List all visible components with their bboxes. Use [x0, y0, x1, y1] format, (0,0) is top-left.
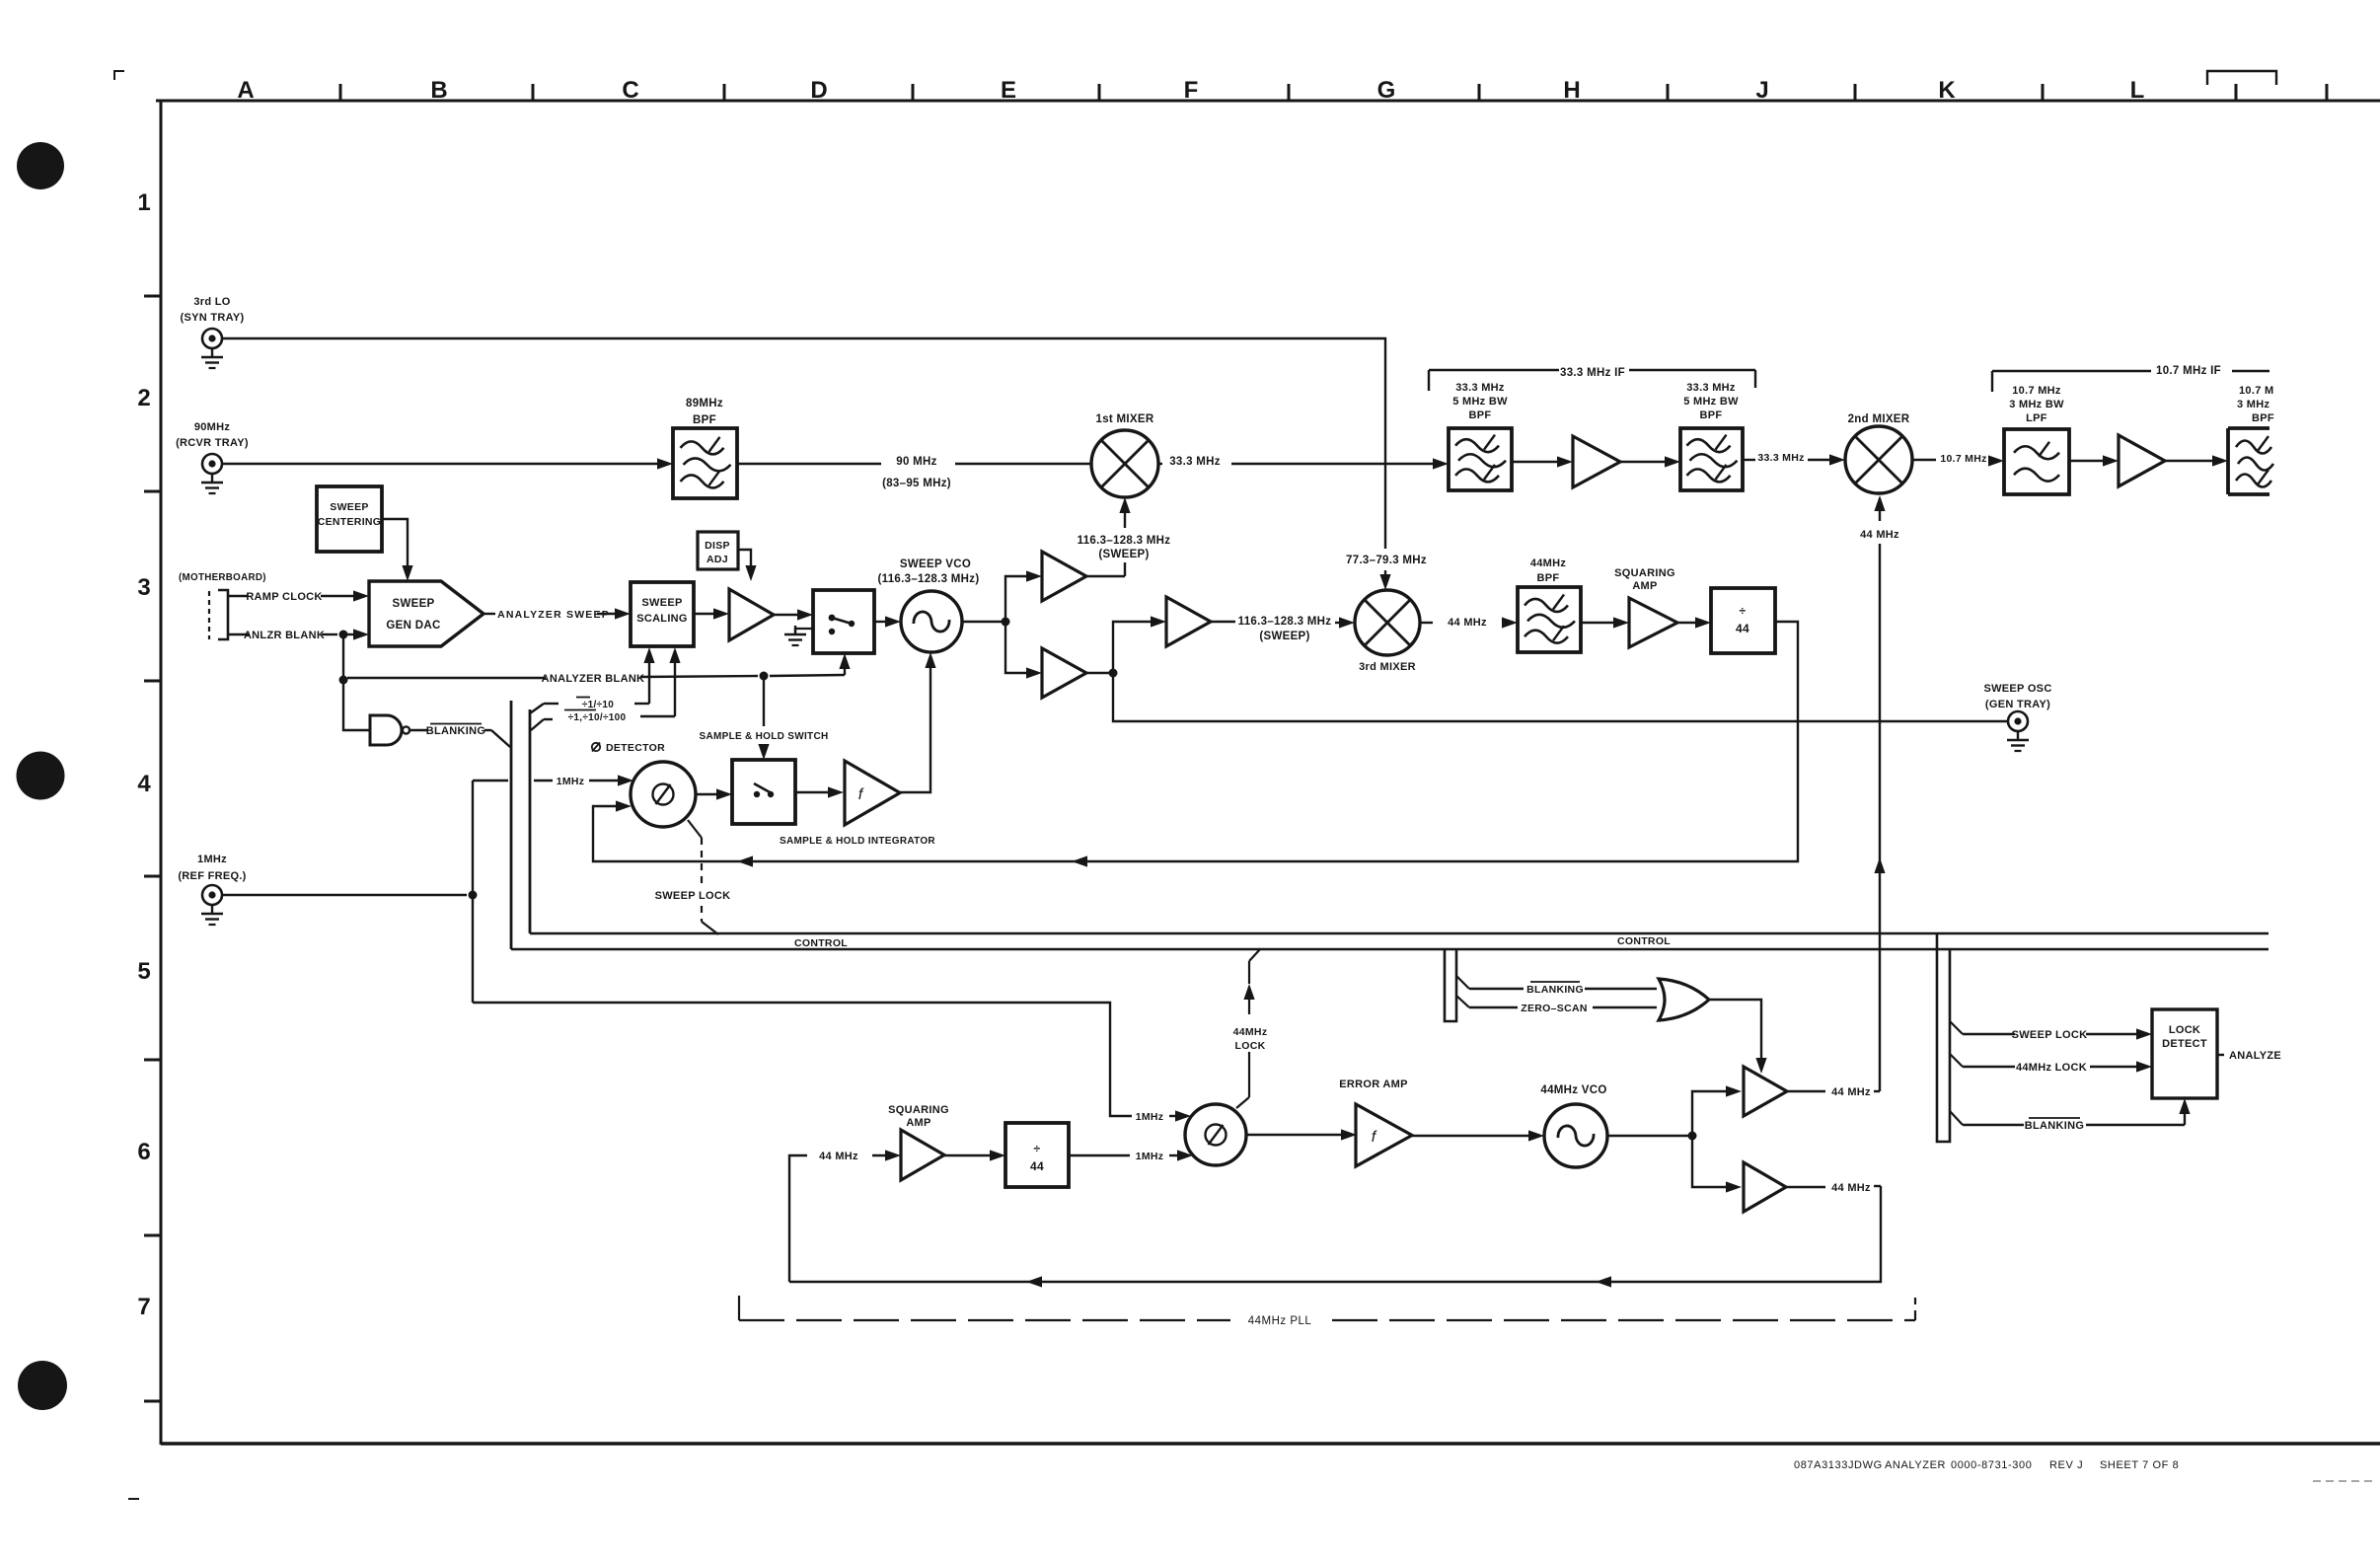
svg-text:CONTROL: CONTROL: [794, 937, 848, 949]
svg-text:SQUARING: SQUARING: [1614, 567, 1675, 579]
filter FL2 33.3 MHz 5 MHz BW BPF: [1449, 382, 1512, 490]
wire ANLZR BLANK: [228, 629, 369, 641]
ground at sweep VCO input switch: [784, 626, 812, 645]
block SWEEP CENTERING: [317, 486, 382, 552]
amplifier A7 SQUARING AMP: [1614, 567, 1677, 647]
svg-text:44: 44: [1736, 622, 1749, 635]
wire 44MHz PLL feedback into squaring amp: [789, 1150, 901, 1282]
svg-text:BPF: BPF: [693, 414, 716, 426]
wire S&H line up into switch S1: [839, 653, 850, 675]
svg-text:DETECT: DETECT: [2162, 1038, 2207, 1050]
svg-text:1: 1: [137, 189, 150, 216]
wire 44 MHz LO vertical into 2nd mixer (from 44MHz VCO buffer): [1860, 495, 1899, 1091]
wire error amp to 44MHz VCO: [1412, 1130, 1544, 1141]
wire sweep LO into 1st mixer, 116.3-128.3 MHz (SWEEP) label: [1078, 497, 1171, 576]
svg-text:1MHz: 1MHz: [1136, 1151, 1164, 1162]
amplifier A6 sweep buffer to 3rd mixer: [1166, 597, 1211, 646]
amplifier A10 ERROR AMP: [1339, 1079, 1412, 1166]
wire 1st mixer out, 33.3 MHz label: [1158, 456, 1449, 470]
wire LPF to 10.7 amp: [2069, 455, 2119, 466]
filter FL1 89MHz BPF: [673, 398, 737, 498]
wire 90MHz input to 89MHz BPF: [222, 458, 673, 469]
filter FL5 10.7 MHz 3 MHz BPF (cut at page edge): [2228, 385, 2274, 494]
wire RAMP CLOCK: [228, 590, 369, 603]
svg-text:E: E: [1001, 77, 1016, 104]
block LOCK DETECT: [2152, 1009, 2217, 1098]
svg-text:10.7 MHz: 10.7 MHz: [2012, 385, 2061, 397]
svg-text:(GEN TRAY): (GEN TRAY): [1985, 699, 2050, 710]
wire DISP ADJ to post amp: [738, 550, 757, 581]
bus channel vertical (control signals): [511, 701, 530, 949]
wire 89MHz BPF to 1st mixer, 90 MHz (83-95 MHz) label: [737, 456, 1091, 489]
wire 1MHz reference into sweep phase detector: [473, 775, 633, 787]
svg-text:SWEEP OSC: SWEEP OSC: [1983, 683, 2051, 695]
amplifier A9 SQUARING AMP (44MHz PLL): [888, 1104, 949, 1180]
svg-text:33.3 MHz: 33.3 MHz: [1455, 382, 1505, 394]
svg-text:10.7 MHz IF: 10.7 MHz IF: [2156, 365, 2221, 377]
oscillator G1 SWEEP VCO: [878, 558, 980, 652]
svg-text:89MHz: 89MHz: [686, 398, 723, 409]
svg-text:5 MHz BW: 5 MHz BW: [1683, 396, 1739, 408]
connector J5 1MHz (REF FREQ.): [178, 854, 246, 925]
svg-text:BLANKING: BLANKING: [2025, 1120, 2084, 1132]
wire integrator output up into sweep VCO: [900, 652, 936, 792]
OR gate U7 blanking/zero-scan: [1659, 979, 1709, 1020]
svg-text:LPF: LPF: [2026, 412, 2047, 424]
svg-text:ANALYZER: ANALYZER: [1885, 1459, 1946, 1471]
wire A11 output 44 MHz to vertical riser: [1787, 1086, 1880, 1098]
wire 44MHz LOCK up to control line: [1233, 949, 1268, 1108]
mixer M3 3rd MIXER: [1355, 590, 1420, 673]
svg-text:BLANKING: BLANKING: [1526, 984, 1584, 996]
amplifier A12 44MHz buffer (PLL feedback): [1744, 1162, 1786, 1212]
svg-text:(116.3–128.3 MHz): (116.3–128.3 MHz): [878, 573, 980, 585]
phase detector U4 (sweep): [592, 742, 696, 827]
wire sweep scaling to post amp: [694, 608, 729, 619]
svg-text:÷1/÷10: ÷1/÷10: [582, 700, 614, 710]
svg-text:44MHz PLL: 44MHz PLL: [1248, 1315, 1312, 1327]
svg-text:AMP: AMP: [1632, 580, 1657, 592]
wire phase detector to error amp: [1246, 1129, 1357, 1140]
svg-text:44 MHz: 44 MHz: [1831, 1086, 1871, 1098]
wire SWEEP LOCK into lock detect: [1963, 1028, 2152, 1041]
wire divide control 1,10/100 to sweep scaling: [531, 647, 681, 730]
svg-text:LOCK: LOCK: [2169, 1024, 2200, 1036]
svg-text:33.3 MHz: 33.3 MHz: [1686, 382, 1736, 394]
svg-text:ADJ: ADJ: [707, 554, 728, 565]
switch S2 SAMPLE & HOLD SWITCH: [732, 760, 795, 824]
wire BLANKING into OR gate: [1469, 982, 1657, 996]
wire A6 to 3rd mixer, 116.3-128.3 MHz (SWEEP) label: [1211, 616, 1355, 642]
bus drop to BLANKING / ZERO-SCAN: [1445, 949, 1469, 1021]
wire 1MHz reference down to 44MHz PLL phase detector: [473, 1003, 1191, 1123]
wire ANALYZE output (cut at page edge): [2217, 1050, 2281, 1062]
svg-text:÷: ÷: [1740, 604, 1747, 618]
svg-text:BPF: BPF: [1537, 572, 1560, 584]
svg-text:116.3–128.3 MHz: 116.3–128.3 MHz: [1078, 535, 1171, 547]
svg-text:5 MHz BW: 5 MHz BW: [1452, 396, 1508, 408]
wire phase det to S&H switch: [696, 788, 732, 799]
svg-text:A: A: [237, 77, 254, 104]
svg-text:(SWEEP): (SWEEP): [1098, 549, 1149, 560]
svg-text:DISP: DISP: [705, 540, 730, 552]
wire 3rd mixer out, 44 MHz label: [1420, 617, 1518, 629]
svg-text:5: 5: [137, 958, 150, 985]
wire divider U2 down to sweep phase detector (feedback): [593, 622, 1798, 867]
svg-text:SWEEP: SWEEP: [330, 501, 368, 513]
svg-text:(RCVR TRAY): (RCVR TRAY): [176, 437, 249, 449]
svg-text:1st MIXER: 1st MIXER: [1096, 413, 1154, 425]
svg-text:087A3133JDWG: 087A3133JDWG: [1794, 1459, 1883, 1471]
wire OR gate output down into buffer amp: [1709, 1000, 1767, 1074]
svg-text:44: 44: [1030, 1159, 1044, 1173]
svg-text:4: 4: [137, 771, 151, 797]
svg-text:SWEEP LOCK: SWEEP LOCK: [655, 890, 731, 902]
svg-text:SWEEP LOCK: SWEEP LOCK: [2012, 1029, 2088, 1041]
svg-text:SWEEP VCO: SWEEP VCO: [900, 558, 971, 570]
connector J3 motherboard: [179, 572, 266, 639]
svg-text:3rd MIXER: 3rd MIXER: [1359, 661, 1416, 673]
svg-text:D: D: [810, 77, 827, 104]
wire NAND input from node: [343, 680, 370, 730]
wire sweep VCO output node: [962, 570, 1042, 678]
svg-text:BPF: BPF: [2252, 412, 2274, 424]
svg-text:10.7 MHz: 10.7 MHz: [1940, 453, 1986, 465]
NAND gate U3 blanking: [370, 715, 409, 745]
svg-text:SWEEP: SWEEP: [641, 597, 682, 609]
wire IF amp to FL3: [1620, 456, 1680, 467]
wire FL3 to 2nd mixer, 33.3 MHz label: [1743, 452, 1845, 466]
svg-text:G: G: [1377, 77, 1396, 104]
svg-text:÷: ÷: [1034, 1142, 1041, 1155]
wire 2nd mixer out, 10.7 MHz label: [1912, 453, 2004, 467]
mixer M1 1st MIXER: [1091, 413, 1158, 497]
amplifier A3 sweep buffer: [729, 589, 774, 640]
svg-text:44MHz: 44MHz: [1233, 1026, 1268, 1038]
svg-text:÷1,÷10/÷100: ÷1,÷10/÷100: [568, 712, 627, 723]
svg-text:GEN DAC: GEN DAC: [386, 620, 440, 632]
svg-text:90MHz: 90MHz: [194, 421, 231, 433]
svg-text:33.3 MHz IF: 33.3 MHz IF: [1560, 367, 1625, 379]
wire FL2 to IF amp: [1512, 456, 1573, 467]
svg-text:F: F: [1184, 77, 1199, 104]
svg-text:CONTROL: CONTROL: [1617, 935, 1671, 947]
wire 1MHz vertical riser to sweep detector: [472, 781, 474, 1003]
wire A3 to S&H switch block, ground tap: [774, 609, 813, 620]
switch S1 sweep hold switch: [813, 590, 874, 653]
wire sweep centering to DAC: [382, 519, 413, 581]
bracket 10.7 MHz IF: [1992, 365, 2269, 392]
svg-text:ANLZR BLANK: ANLZR BLANK: [244, 630, 325, 641]
wire 44MHz LOCK into lock detect: [1963, 1061, 2152, 1074]
wire squaring amp to divider U5: [944, 1150, 1005, 1160]
svg-text:3 MHz BW: 3 MHz BW: [2009, 399, 2064, 410]
svg-text:C: C: [622, 77, 638, 104]
filter FL3 33.3 MHz 5 MHz BW BPF: [1680, 382, 1743, 490]
svg-text:44 MHz: 44 MHz: [819, 1151, 858, 1162]
filter FL6 44MHz BPF: [1518, 558, 1581, 652]
wire FL6 to squaring amp: [1580, 617, 1629, 628]
divider U2 divide-by-44: [1711, 588, 1775, 653]
svg-text:SAMPLE & HOLD INTEGRATOR: SAMPLE & HOLD INTEGRATOR: [780, 836, 935, 847]
svg-text:3rd LO: 3rd LO: [193, 296, 230, 308]
mixer M2 2nd MIXER: [1845, 413, 1912, 493]
wire 3rd LO to 3rd mixer with 77.3-79.3 MHz label: [222, 338, 1427, 590]
wire squaring amp to divider: [1677, 617, 1711, 628]
svg-text:44 MHz: 44 MHz: [1860, 529, 1899, 541]
svg-text:33.3 MHz: 33.3 MHz: [1757, 452, 1804, 464]
svg-text:44 MHz: 44 MHz: [1831, 1182, 1871, 1194]
svg-text:SHEET 7 OF 8: SHEET 7 OF 8: [2100, 1459, 2179, 1471]
svg-text:SWEEP: SWEEP: [392, 598, 434, 610]
block DISP ADJ: [698, 532, 738, 569]
wire BLANKING into control bus: [410, 724, 511, 748]
svg-text:10.7 M: 10.7 M: [2239, 385, 2273, 397]
svg-text:BPF: BPF: [1700, 409, 1723, 421]
svg-text:SQUARING: SQUARING: [888, 1104, 949, 1116]
svg-text:REV J: REV J: [2049, 1459, 2083, 1471]
svg-text:90 MHz: 90 MHz: [896, 456, 936, 468]
svg-text:B: B: [430, 77, 447, 104]
svg-text:1MHz: 1MHz: [1136, 1111, 1164, 1123]
wire SWEEP LOCK dashed from phase detector to control line: [655, 820, 731, 934]
bracket 33.3 MHz IF: [1429, 367, 1755, 391]
svg-text:2: 2: [137, 385, 150, 411]
filter FL4 10.7 MHz 3 MHz BW LPF: [2004, 385, 2069, 494]
amplifier A5 sweep LO buffer (to 3rd mixer path): [1042, 648, 1086, 698]
svg-text:44MHz LOCK: 44MHz LOCK: [2016, 1062, 2087, 1074]
oscillator G2 44MHz VCO: [1540, 1084, 1607, 1167]
svg-text:RAMP CLOCK: RAMP CLOCK: [246, 591, 322, 603]
svg-text:(SWEEP): (SWEEP): [1259, 631, 1309, 642]
svg-text:(REF FREQ.): (REF FREQ.): [178, 870, 246, 882]
svg-text:6: 6: [137, 1139, 150, 1165]
svg-text:DETECTOR: DETECTOR: [606, 742, 665, 754]
svg-text:3 MHz: 3 MHz: [2237, 399, 2269, 410]
amplifier A8 SAMPLE & HOLD INTEGRATOR: [780, 761, 935, 847]
svg-text:LOCK: LOCK: [1235, 1040, 1266, 1052]
svg-text:ANALYZE: ANALYZE: [2229, 1050, 2281, 1062]
svg-text:44MHz: 44MHz: [1530, 558, 1567, 569]
svg-text:K: K: [1938, 77, 1956, 104]
amplifier A1 33.3 MHz IF amp: [1573, 436, 1620, 487]
svg-text:J: J: [1755, 77, 1768, 104]
wire 1MHz ref to node: [222, 891, 478, 900]
svg-text:ANALYZER BLANK: ANALYZER BLANK: [542, 673, 645, 685]
svg-text:33.3 MHz: 33.3 MHz: [1169, 456, 1221, 468]
connector J4 SWEEP OSC (GEN TRAY): [1983, 683, 2051, 751]
svg-text:L: L: [2130, 77, 2145, 104]
svg-text:(MOTHERBOARD): (MOTHERBOARD): [179, 572, 266, 583]
svg-text:(83–95 MHz): (83–95 MHz): [882, 478, 951, 489]
svg-text:2nd MIXER: 2nd MIXER: [1848, 413, 1910, 425]
block SWEEP SCALING: [631, 582, 694, 646]
svg-text:44 MHz: 44 MHz: [1448, 617, 1487, 629]
connector J2 90MHz (RCVR TRAY): [176, 421, 249, 493]
svg-text:7: 7: [137, 1294, 150, 1320]
wire ZERO-SCAN into OR gate: [1469, 1003, 1657, 1014]
wire node to SWEEP OSC (GEN TRAY): [1113, 673, 2008, 721]
svg-text:ZERO–SCAN: ZERO–SCAN: [1521, 1003, 1587, 1014]
bracket 44MHz PLL dashed: [739, 1296, 1915, 1327]
phase detector U6 (44MHz PLL): [1185, 1104, 1246, 1165]
svg-text:3: 3: [137, 574, 150, 601]
amplifier A2 10.7 MHz IF amp: [2119, 435, 2165, 486]
svg-text:44MHz VCO: 44MHz VCO: [1540, 1084, 1606, 1096]
wire VCO output node: [1607, 1085, 1742, 1192]
wire A5 output node: [1086, 616, 1166, 677]
svg-text:116.3–128.3 MHz: 116.3–128.3 MHz: [1238, 616, 1332, 628]
wire ANALYZER SWEEP: [483, 608, 631, 621]
divider U5 divide-by-44: [1005, 1123, 1069, 1187]
svg-text:ANALYZER SWEEP: ANALYZER SWEEP: [497, 609, 610, 621]
wire divide control 1/10 to sweep scaling: [530, 647, 655, 713]
svg-text:H: H: [1563, 77, 1580, 104]
amplifier A11 44MHz buffer (to 2nd mixer): [1744, 1067, 1787, 1116]
wire divider to phase detector, 1MHz label: [1069, 1150, 1193, 1162]
svg-text:(SYN TRAY): (SYN TRAY): [181, 312, 245, 324]
svg-text:SCALING: SCALING: [636, 613, 688, 625]
wire switch S1 to sweep VCO: [874, 616, 901, 627]
control bus line lower (CONTROL): [511, 935, 2268, 949]
wire node down to sample & hold switch: [700, 676, 829, 760]
amplifier A4 sweep LO buffer (to 1st mixer): [1042, 552, 1086, 601]
DAC U1 SWEEP GEN DAC: [369, 581, 483, 646]
svg-text:1MHz: 1MHz: [197, 854, 227, 865]
svg-text:77.3–79.3 MHz: 77.3–79.3 MHz: [1346, 555, 1427, 566]
svg-text:BLANKING: BLANKING: [426, 725, 485, 737]
wire S2 to integrator: [795, 786, 844, 797]
svg-text:BPF: BPF: [1469, 409, 1492, 421]
svg-text:ERROR AMP: ERROR AMP: [1339, 1079, 1408, 1090]
wire ANLZR BLANK node down and ANALYZER BLANK line: [339, 634, 846, 685]
svg-text:SAMPLE & HOLD SWITCH: SAMPLE & HOLD SWITCH: [700, 731, 829, 742]
svg-text:CENTERING: CENTERING: [318, 516, 382, 528]
connector J1 3rd LO (SYN TRAY): [181, 296, 245, 368]
control bus line upper (CONTROL): [530, 932, 2268, 934]
svg-text:0000-8731-300: 0000-8731-300: [1951, 1459, 2032, 1471]
wire A12 output 44 MHz feedback loop: [789, 1182, 1881, 1288]
wire 10.7 amp to FL5: [2165, 455, 2228, 466]
wire BLANKING into lock detect bottom: [1963, 1098, 2191, 1132]
svg-text:AMP: AMP: [906, 1117, 930, 1129]
bus drop to lock detect signals: [1937, 933, 1963, 1142]
svg-text:1MHz: 1MHz: [557, 776, 585, 787]
